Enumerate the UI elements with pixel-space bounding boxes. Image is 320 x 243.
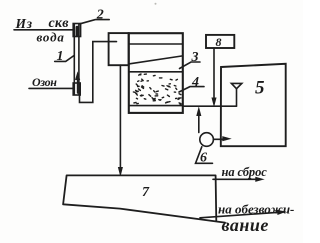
leader for 2 bbox=[80, 20, 109, 24]
funnel stem bbox=[236, 89, 238, 106]
sludge zone 4 top line bbox=[130, 71, 183, 73]
wire pump suction riser, arrow up bbox=[198, 113, 200, 133]
leader for 6 bbox=[196, 147, 213, 164]
svg-text:Озон: Озон bbox=[32, 75, 57, 89]
trapezoid basin 7 bbox=[63, 175, 225, 222]
sludge speckles bbox=[133, 74, 181, 105]
injector arrow up inside column bbox=[77, 77, 79, 93]
pump 6 circle bbox=[200, 133, 214, 147]
tank 3 outer bbox=[129, 33, 183, 113]
column 1 top box bbox=[73, 24, 80, 37]
wire pump discharge, arrow right bbox=[213, 138, 226, 140]
wire dewatering arrow bbox=[200, 212, 281, 218]
tank feed box bbox=[109, 33, 129, 65]
leader for 4 bbox=[179, 87, 204, 92]
wire ozone inlet bbox=[29, 87, 74, 89]
sludge zone 4 bottom line bbox=[130, 105, 183, 107]
svg-text:4: 4 bbox=[191, 75, 199, 90]
leader for 3 bbox=[180, 62, 201, 69]
svg-text:Из: Из bbox=[15, 16, 33, 31]
wire clarified water to filter bbox=[183, 105, 237, 107]
scan speck bbox=[155, 3, 157, 5]
wire from box 8 down, arrow bbox=[213, 48, 215, 101]
box 5 (filter tank) bbox=[221, 64, 286, 146]
svg-text:вода: вода bbox=[37, 30, 65, 45]
box 8 bbox=[206, 35, 234, 48]
svg-text:вание: вание bbox=[222, 215, 269, 235]
wire discharge arrow bbox=[213, 178, 259, 180]
column 1 bottom box bbox=[73, 83, 80, 95]
funnel in box 5 bbox=[231, 83, 241, 88]
svg-text:на сброс: на сброс bbox=[222, 165, 268, 179]
svg-text:7: 7 bbox=[142, 185, 150, 200]
leader for 1 bbox=[55, 55, 74, 61]
column 1 body bbox=[74, 24, 79, 94]
tank 3 slanted line bbox=[129, 56, 182, 64]
svg-text:8: 8 bbox=[216, 35, 222, 49]
svg-text:5: 5 bbox=[255, 78, 265, 99]
tank 3 inner level line bbox=[129, 43, 183, 45]
wire U-trap from column to tank bbox=[80, 42, 117, 103]
wire down to sludge bed, arrow bbox=[119, 65, 121, 170]
sprayer blob in top box bbox=[76, 26, 79, 37]
wire water inlet bbox=[14, 29, 74, 31]
